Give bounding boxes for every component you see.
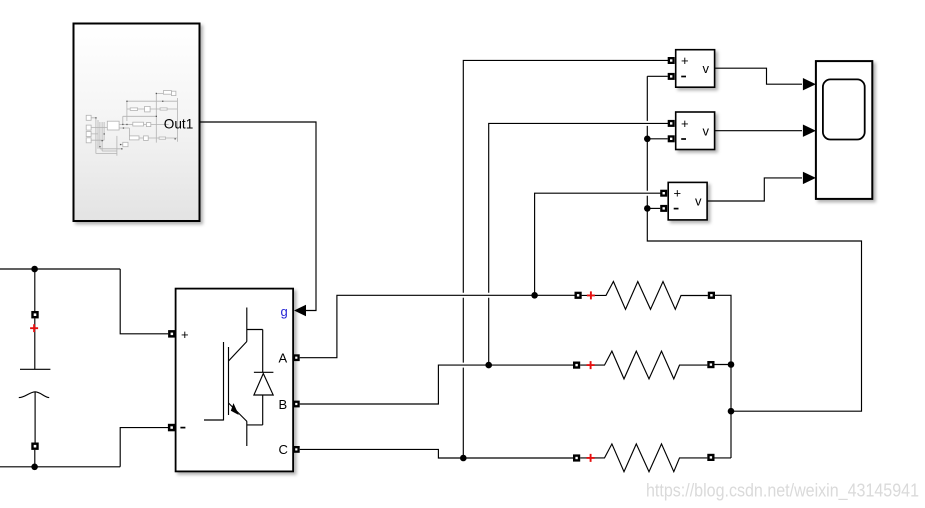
diode: anode lead: [262, 395, 264, 425]
wire: capacitor bottom lead: [34, 392, 36, 442]
block: voltage measurement V3: [668, 182, 707, 220]
port: V2 +: [668, 120, 675, 127]
wire: capacitor top lead: [34, 269, 36, 311]
transistor: IGBT gate bar: [223, 342, 225, 421]
port: V1 -: [668, 73, 675, 80]
wire: voltmeter minus bus: V1- left then down (hops crossing V2+ and V3+ wires): [647, 76, 861, 411]
svg-text:+: +: [681, 116, 689, 131]
wire: V2 output to scope input 2: [715, 130, 802, 132]
port: bridge - input: [168, 424, 176, 432]
subsystem thumbnail sketch: [86, 91, 177, 156]
svg-text:+: +: [674, 186, 682, 201]
block: universal bridge (IGBT inverter): [176, 289, 294, 472]
svg-text:g: g: [281, 304, 288, 319]
wire: V1 output to scope input 1: [715, 68, 802, 84]
port: bridge B output: [293, 401, 300, 408]
label: R1 + polarity (red): [587, 291, 595, 299]
arrow: scope input 3: [803, 172, 816, 184]
node: junction DC+: [31, 266, 38, 273]
wire: Out1 gate signal to bridge g input: [200, 122, 317, 311]
wire: V2 - to bus: [647, 138, 667, 140]
resistor R2 branch: left port: [573, 362, 580, 369]
label: R2 + polarity (red): [587, 361, 595, 369]
transistor: IGBT collector diagonal: [229, 342, 247, 362]
svg-text:C: C: [279, 442, 288, 457]
node: junction DC-: [31, 464, 38, 471]
port: bridge C output: [293, 446, 300, 453]
port: bridge + input: [168, 330, 176, 338]
label: V2 -: [681, 138, 686, 140]
diode: cathode lead: [262, 330, 264, 373]
port: V3 -: [660, 205, 667, 212]
resistor R2 right port: [707, 361, 714, 368]
resistor R1 zigzag: [582, 282, 708, 310]
wire: DC bus top rail from left edge to corner: [0, 268, 120, 270]
label: V1 -: [681, 76, 686, 78]
wire: R1 to load star point: [715, 295, 731, 458]
node: junction R2/star column: [728, 361, 735, 368]
wire: capacitor lead to bottom rail: [34, 450, 36, 467]
port: V3 +: [660, 190, 667, 197]
svg-text:A: A: [279, 351, 288, 366]
svg-text:v: v: [703, 61, 710, 76]
resistor R1 right port: [708, 292, 715, 299]
wire: V3 output to scope input 3: [707, 178, 802, 201]
node: junction V3- on minus bus: [644, 205, 651, 212]
wire: DC bus bottom rail from left edge: [0, 466, 120, 468]
transistor: IGBT collector stub: [246, 308, 248, 342]
label: R3 + polarity (red): [587, 454, 595, 462]
wire: phase C from bridge to R3: [300, 449, 573, 458]
transistor: IGBT emitter arrow: [230, 403, 240, 415]
scope screen: [823, 79, 865, 139]
block: voltage measurement V2: [676, 112, 715, 150]
resistor R2 zigzag: [580, 351, 707, 379]
svg-text:https://blog.csdn.net/weixin_4: https://blog.csdn.net/weixin_43145941: [646, 480, 919, 502]
capacitor C: top plate: [20, 368, 50, 370]
wire: IGBT collector to diode top: [247, 329, 263, 331]
transistor: IGBT channel bar: [228, 347, 230, 415]
arrow: scope input 2: [803, 125, 816, 137]
block: scope: [816, 61, 872, 199]
wire: C tap up to voltmeter V1 + (hops crossing phase B and phase A wires): [463, 60, 668, 458]
wire: phase B from bridge to R2: [300, 365, 573, 404]
wire: DC top rail drop to bridge + port: [120, 269, 168, 334]
resistor R1 branch: left port: [575, 292, 582, 299]
wire: capacitor lead from + to top plate: [34, 318, 36, 369]
resistor R3 branch: left port: [573, 454, 580, 461]
wire: A tap up to voltmeter V3 + (hop at y=193.2 horizontal crossing none): [535, 193, 661, 295]
wire: IGBT gate lead: [204, 419, 224, 421]
subsystem: PWM generator (Out1) shadow+body: [74, 24, 200, 222]
node: junction V2- on minus bus: [644, 136, 651, 143]
wire: B tap up to voltmeter V2 + (hop where it crosses phase A wire): [489, 123, 669, 365]
transistor: IGBT emitter diagonal: [229, 403, 248, 422]
svg-text:Out1: Out1: [164, 117, 193, 132]
port: V2 -: [668, 135, 675, 142]
port: capacitor + measurement port: [31, 311, 38, 318]
wire: V3 - to bus: [647, 207, 660, 209]
transistor: IGBT emitter stub: [246, 422, 248, 447]
arrow: scope input 1: [803, 78, 816, 90]
label: bridge -: [180, 427, 185, 429]
svg-text:v: v: [703, 124, 710, 139]
block: voltage measurement V1: [676, 50, 715, 87]
node: junction B to Vbc tap: [485, 362, 492, 369]
port: V1 +: [668, 57, 675, 64]
node: junction C to Vca tap: [460, 455, 467, 462]
svg-text:+: +: [681, 53, 689, 68]
resistor R3 right port: [707, 454, 714, 461]
svg-text:v: v: [695, 194, 702, 209]
diode: triangle: [254, 374, 273, 396]
label: V3 -: [674, 208, 679, 210]
wire: R2 to star point: [715, 364, 732, 366]
wire: R3 to star point: [715, 457, 732, 459]
resistor R3 zigzag: [580, 444, 707, 472]
svg-text:+: +: [181, 327, 189, 342]
port: capacitor - measurement port: [31, 443, 38, 450]
capacitor C: curved bottom plate: [19, 392, 49, 398]
arrow: into g port: [294, 305, 306, 316]
wire: DC bottom rail rise to bridge - port: [120, 428, 168, 467]
node: junction star point / neutral: [728, 408, 735, 415]
node: junction A to Vab tap: [531, 292, 538, 299]
wire: phase A from bridge to R1: [300, 295, 575, 357]
diode: cathode bar: [254, 371, 274, 373]
port: bridge A output: [293, 354, 300, 361]
svg-text:B: B: [279, 397, 288, 412]
label: capacitor + polarity (red): [30, 324, 38, 332]
wire: diode bottom to emitter: [247, 424, 263, 426]
